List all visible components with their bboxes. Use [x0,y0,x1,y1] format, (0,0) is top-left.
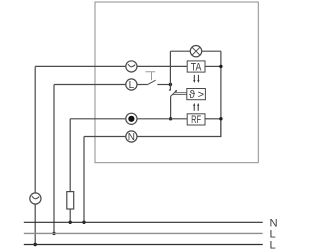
wire: N terminal to right bus [137,119,221,137]
wire: clock-terminal feed from external timer (horizontal) [35,65,126,67]
wire: heater output terminal feed (horizontal) [70,118,126,120]
terminal: clock input [126,61,137,72]
blade arrowhead [175,90,178,93]
wire: clock-terminal feed vertical drop [34,66,36,193]
arrows TA to thermostat [193,75,195,81]
wire: timer to bottom L line [34,204,36,244]
junction: on heater wire [169,117,172,120]
wire: L terminal feed vertical drop [53,85,55,234]
thermostat contact blade [171,91,176,96]
wire: left bus to lamp [170,50,190,52]
bottom supply line N [24,221,263,223]
left bus (lamp corner down to fixed contact) [169,51,171,90]
junction: timer on bottom L [34,243,37,246]
wire: heater drop to resistor [69,119,71,192]
arrows RF to thermostat [193,105,195,111]
mechanical link double line to thermostat box [173,93,187,95]
svg-text:TA: TA [191,61,202,73]
resistor (heating element) [67,192,74,209]
wire: RF to right bus [205,118,221,120]
wire: resistor to N line [69,209,71,222]
svg-text:>: > [198,89,204,101]
junction: TA on right bus [219,65,222,68]
wire: switch to left bus [157,84,170,86]
svg-text:RF: RF [191,114,201,126]
manual switch blade [148,80,156,84]
timer clock symbol (external) [30,193,41,204]
terminal: L [126,79,137,90]
wire: N terminal feed (horizontal) [84,136,126,138]
svg-text:ϑ: ϑ [189,89,195,101]
junction: resistor on N line [69,221,72,224]
svg-text:N: N [128,132,135,143]
wire: TA to right bus [205,65,221,67]
wire: blade pivot down to heater wire [170,96,172,118]
thermostat box [187,89,206,100]
wire: lamp to right bus [202,50,221,52]
junction: L on left bus [169,83,172,86]
right bus [220,51,222,136]
indicator lamp [190,46,201,57]
svg-text:L: L [129,80,135,91]
TA box [187,61,205,72]
junction: RF on right bus [219,117,222,120]
wire: L terminal to switch [137,84,148,86]
wire: heater terminal to RF box [137,118,187,120]
wire: clock terminal to TA box [137,65,187,67]
bottom supply line L [24,244,263,246]
bottom supply line L (grey) [24,232,263,234]
terminal: heater output (dot) [126,113,137,124]
terminal: N [126,131,137,142]
RF box [187,114,205,125]
manual switch actuator (grey T) [145,72,155,80]
junction: N drop on N line [82,221,85,224]
wire: L terminal feed (horizontal) [54,84,126,86]
svg-text:L: L [270,240,276,250]
device enclosure box [95,2,258,163]
wire: N terminal drop [83,137,85,223]
junction: L drop on grey L line [52,232,55,235]
